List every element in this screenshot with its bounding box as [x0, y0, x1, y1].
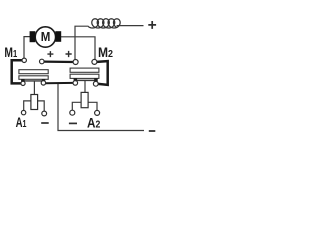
- terminal A1 right: [42, 111, 47, 116]
- plus sign at terminal T2: [47, 51, 53, 57]
- terminal T4: [92, 59, 97, 64]
- terminal A2 right: [95, 110, 100, 115]
- plus sign supply positive terminal: [148, 21, 156, 29]
- minus sign at cell A1: [41, 122, 49, 124]
- accumulator cell A1 body: [31, 95, 38, 110]
- minus sign supply negative terminal: [149, 130, 156, 132]
- wire from motor right brush to terminal T4 (M2): [61, 37, 95, 60]
- switch bus plate upper right: [70, 68, 99, 72]
- tab joining plate to terminal B2: [42, 79, 46, 82]
- svg-text:M: M: [41, 30, 51, 44]
- bus link B2 to B3: [46, 82, 74, 84]
- terminal A2 left: [70, 110, 75, 115]
- wire A2 right lead: [88, 102, 97, 110]
- motor M right brush: [55, 31, 61, 42]
- svg-text:A1: A1: [16, 115, 27, 130]
- tab joining plate to terminal B1: [21, 79, 25, 82]
- wire tap from bar to cell A2: [84, 81, 86, 92]
- wire A1 right lead: [38, 101, 45, 111]
- terminal B1: [21, 81, 25, 85]
- motor M left brush: [30, 31, 36, 42]
- wire tap from bar to cell A1: [33, 81, 35, 95]
- svg-text:M1: M1: [4, 45, 17, 60]
- switch blade link middle (T2 to T3): [44, 60, 73, 63]
- tab joining plate to terminal B4: [94, 78, 98, 81]
- terminal T3: [73, 60, 78, 65]
- connector bar under left plates: [23, 80, 44, 82]
- terminal B2: [41, 81, 45, 85]
- accumulator cell A2 body: [81, 92, 88, 107]
- wire A2 left lead: [72, 102, 81, 110]
- svg-text:A2: A2: [87, 116, 101, 131]
- switch bus plate lower right: [70, 74, 99, 78]
- terminal B3: [73, 81, 78, 86]
- terminal T2: [40, 59, 45, 64]
- switch bus plate lower left: [19, 76, 48, 80]
- inductor L1 (choke coil): [88, 19, 120, 28]
- wire riser from terminal T3 up to inductor, junction with motor wire: [75, 26, 89, 59]
- minus sign at cell A2: [69, 122, 77, 124]
- terminal B4: [93, 81, 98, 86]
- wire negative return from bus link to negative supply: [58, 83, 144, 130]
- terminal T1: [22, 58, 26, 62]
- switch blade link M1 (T1 to B1): [12, 60, 23, 83]
- switch bus plate upper left: [19, 70, 48, 74]
- tab joining plate to terminal B3: [74, 78, 78, 81]
- wire A1 left lead: [24, 101, 31, 111]
- motor M armature circle: [35, 27, 55, 47]
- svg-text:M2: M2: [98, 45, 113, 60]
- wire inductor right lead to positive supply: [117, 25, 144, 27]
- wire from motor left brush to terminal T1: [24, 37, 30, 59]
- switch blade link M2 (T4 to B4): [97, 61, 108, 85]
- terminal A1 left: [21, 110, 25, 114]
- plus sign at terminal T3: [66, 51, 72, 57]
- connector bar under right plates: [75, 79, 96, 81]
